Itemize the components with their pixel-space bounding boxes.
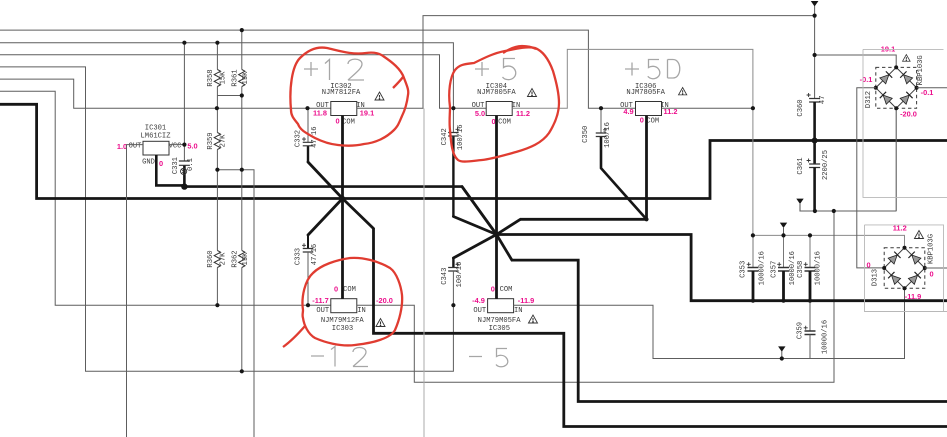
wire: arrow stub to 11.2 rail [783, 227, 785, 235]
capacitor C360 47 [797, 93, 827, 117]
label -12 [311, 355, 324, 357]
svg-text:GND: GND [142, 159, 155, 167]
svg-text:C360: C360 [797, 99, 805, 116]
capacitor C342 100/16 [441, 108, 465, 150]
svg-text:11.8: 11.8 [313, 109, 327, 118]
wire: resistor top jog to long vertical x=254 [217, 170, 254, 437]
wire: +5D feed rail from left edge to IC306 OUT [0, 30, 636, 108]
svg-text:15K: 15K [219, 71, 227, 85]
wire: IC304 IN rail up over to 11.2 gray route, down to cap rail [512, 49, 904, 247]
wire: C361 bottom thick to -20 line [813, 168, 816, 212]
svg-text:-20.0: -20.0 [900, 109, 917, 118]
wire: IC302 COM thick down to X1 [341, 116, 344, 199]
svg-text:C342: C342 [441, 128, 449, 145]
svg-text:COM: COM [500, 286, 513, 294]
svg-text:IC301: IC301 [145, 124, 166, 132]
svg-text:R360: R360 [207, 250, 215, 267]
capacitor C350 100/16 [582, 108, 612, 148]
warning triangle IC306 [679, 88, 687, 95]
svg-text:COM: COM [342, 118, 355, 126]
svg-text:IN: IN [514, 307, 523, 315]
wire: C332 lower stub to X1 diagonal [307, 146, 309, 162]
wire: C360 bottom thick to GND jog node [813, 102, 816, 164]
svg-text:15K: 15K [242, 71, 250, 85]
svg-text:-20.0: -20.0 [376, 296, 393, 305]
svg-text:100/16: 100/16 [604, 122, 612, 148]
svg-text:OUT: OUT [473, 307, 486, 315]
svg-text:-11.9: -11.9 [905, 292, 921, 301]
svg-text:IN: IN [357, 307, 366, 315]
svg-text:47/16: 47/16 [311, 244, 319, 265]
wire: C333 stub below X1 diagonal [307, 235, 309, 249]
resistor R360 27K [216, 170, 218, 306]
wire: X2 to IC306 COM node (GND) [520, 218, 646, 221]
off-page arrow on 11.2 rail [780, 223, 787, 228]
wire: IC303 IN thin route right-down-right to -20 line [357, 211, 834, 382]
svg-text:LM61CIZ: LM61CIZ [141, 133, 172, 141]
svg-text:0: 0 [334, 284, 338, 293]
label +5 [475, 62, 489, 76]
svg-text:-0.1: -0.1 [921, 88, 934, 97]
annotation red stroke inside +12 circle [393, 77, 403, 88]
svg-text:0: 0 [640, 116, 644, 125]
svg-text:NJM79M05FA: NJM79M05FA [478, 317, 522, 325]
annotation red circle around +5 [449, 47, 559, 161]
wire: D312 AC right to edge [917, 87, 947, 89]
label -5 [469, 356, 482, 358]
svg-text:OUT: OUT [316, 307, 329, 315]
off-page arrow on -20 line [796, 199, 803, 204]
off-page arrow on -11.9 line [778, 346, 785, 351]
wire: IC306 COM thick down to GND junction [645, 116, 648, 220]
resistor R359 27K [216, 108, 218, 170]
svg-text:C353: C353 [740, 261, 748, 278]
wire: +5 rail to IC304 OUT [0, 55, 486, 108]
svg-text:C343: C343 [441, 268, 449, 285]
capacitor C358 10000/16 [797, 235, 823, 300]
resistor R361 15K [241, 30, 243, 170]
svg-text:0: 0 [335, 117, 339, 126]
op-amp IC306 NJM7805FA regulator [626, 83, 665, 115]
warning triangle D313 [915, 231, 924, 239]
wire: D313 AC right to edge [925, 267, 947, 269]
svg-text:C350: C350 [582, 126, 590, 143]
wire: -5 sense line from left edge to IC305 OUT node [0, 67, 453, 371]
wire: IC306 IN rail to 11.2 vertical [662, 107, 753, 109]
svg-text:C358: C358 [797, 261, 805, 278]
svg-text:COM: COM [498, 118, 511, 126]
svg-text:19.1: 19.1 [360, 109, 374, 118]
resistor R358 15K [217, 43, 241, 109]
warning triangle D312 [903, 55, 911, 62]
capacitor C343 100/16 [441, 262, 464, 305]
op-amp IC302 NJM7812FA regulator [322, 83, 361, 115]
warning triangle IC302 [375, 92, 384, 100]
wire: -12 OUT line from left edge to IC303 [0, 91, 331, 305]
svg-text:15K: 15K [242, 252, 250, 266]
svg-text:R358: R358 [207, 69, 215, 86]
wire: IC304 COM thick down to X2 [495, 116, 498, 235]
wire: GND thick bus from left edge via corner to right jog [0, 104, 947, 198]
svg-text:NJM7805FA: NJM7805FA [477, 89, 516, 97]
svg-text:-0.1: -0.1 [860, 75, 873, 84]
svg-text:11.2: 11.2 [516, 109, 530, 118]
svg-text:0: 0 [929, 270, 933, 279]
svg-text:D313: D313 [872, 269, 880, 286]
svg-text:-11.9: -11.9 [518, 296, 534, 305]
svg-text:-11.7: -11.7 [312, 296, 328, 305]
op-amp IC303 NJM79M12FA regulator [321, 299, 365, 333]
op-amp IC305 NJM79M05FA regulator [478, 299, 522, 333]
capacitor C331 0.1 [172, 157, 195, 174]
svg-text:C357: C357 [770, 261, 778, 278]
svg-text:5.0: 5.0 [475, 109, 485, 118]
svg-text:COM: COM [343, 286, 356, 294]
capacitor C359 10000/16 [797, 301, 830, 359]
svg-text:C361: C361 [797, 157, 805, 174]
svg-text:0: 0 [491, 284, 495, 293]
wire: IC302 IN rail up and over to 19.1 node [357, 16, 815, 109]
svg-text:5.0: 5.0 [187, 142, 197, 151]
svg-text:0: 0 [866, 261, 870, 270]
diode bridge D312 KBP103G [865, 55, 925, 110]
svg-text:-4.9: -4.9 [472, 296, 485, 305]
op-amp IC304 NJM7805FA regulator [477, 83, 516, 115]
svg-text:C332: C332 [295, 130, 303, 147]
svg-text:4.9: 4.9 [623, 107, 633, 116]
wire: IC301 VCC to +5 tap [169, 43, 184, 161]
IC301 LM61CIZ [117, 124, 198, 168]
capacitor C332 47/16 [295, 108, 319, 148]
svg-text:100/16: 100/16 [456, 262, 464, 288]
wire: C350 lower stub diagonal to IC306 COM node [601, 137, 647, 220]
diode bridge D313 KBP103G [872, 234, 936, 290]
wire: IC303 COM thick up to X1 [341, 199, 344, 299]
wire: X2 southeast thick route to bottom right [512, 260, 947, 401]
wire: -20 thick route from X1 down right to bottom edge [374, 229, 947, 427]
wire: X2 east to lower GND bus with caps [497, 235, 947, 301]
svg-text:10000/16: 10000/16 [821, 320, 829, 354]
annotation red flourish on +5 circle top [503, 46, 536, 53]
svg-text:R361: R361 [231, 69, 239, 86]
node X2 GND star junction [453, 187, 520, 261]
svg-text:R359: R359 [207, 132, 215, 149]
wire: GND thick line from C331 node to X2 diagonal [184, 187, 496, 235]
svg-text:COM: COM [646, 117, 659, 125]
svg-text:10000/16: 10000/16 [759, 251, 767, 285]
capacitor C353 10000/16 [740, 235, 767, 300]
svg-text:VCC: VCC [169, 143, 182, 151]
capacitor C357 10000/16 [770, 235, 797, 300]
svg-text:1.0: 1.0 [117, 142, 127, 151]
svg-text:D312: D312 [865, 91, 873, 108]
annotation red tail bottom-left of IC303 circle [283, 326, 305, 347]
svg-text:KBP103G: KBP103G [917, 55, 925, 85]
node X1 GND star junction [308, 162, 374, 235]
wire: 19.1 vertical with branch to D312 [815, 6, 897, 99]
svg-text:NJM7812FA: NJM7812FA [322, 89, 361, 97]
svg-text:47: 47 [819, 96, 827, 105]
svg-text:27K: 27K [219, 134, 227, 148]
wire: IC305 COM thick up to X2 [495, 235, 498, 299]
svg-text:KBP103G: KBP103G [928, 234, 936, 264]
svg-text:2200/25: 2200/25 [822, 150, 830, 180]
section box around D313 [865, 225, 947, 312]
svg-text:C359: C359 [797, 322, 805, 339]
wire: -20 line with stub [800, 108, 897, 211]
svg-text:10000/16: 10000/16 [789, 251, 797, 285]
svg-text:NJM79M12FA: NJM79M12FA [321, 317, 365, 325]
svg-text:C331: C331 [172, 157, 180, 174]
warning triangle IC305 [529, 315, 538, 323]
warning triangle IC303 [376, 319, 385, 327]
svg-text:R362: R362 [231, 250, 239, 267]
svg-text:0: 0 [159, 159, 163, 168]
wire: C342 lower stub to X2 [452, 136, 454, 217]
wire: IC301 GND thick to C331 bottom node [156, 155, 184, 187]
resistor R362 15K [241, 170, 243, 372]
svg-text:IC303: IC303 [332, 325, 353, 333]
svg-text:10000/16: 10000/16 [815, 251, 823, 285]
svg-text:0: 0 [491, 117, 495, 126]
off-page arrow top (19.1 net) [811, 1, 819, 7]
annotation red circle around +12 [290, 48, 408, 146]
wire: +5 rail (VCC/R358) from left edge down to C342 tap [0, 43, 453, 109]
wire: C343 upper stub from X2 [452, 258, 454, 268]
capacitor C333 47/16 [295, 243, 319, 305]
wire: IC305 IN route right and down to -11.9 line [514, 288, 905, 358]
svg-text:C333: C333 [295, 248, 303, 265]
wire: D312 AC left down to D313 AC left [857, 88, 884, 268]
svg-text:100/16: 100/16 [457, 124, 465, 150]
wire: arrow stub to -11.9 line [781, 351, 783, 359]
label +12 [304, 62, 318, 76]
wire: +12 OUT rail from left edge to IC302 [0, 79, 331, 108]
svg-text:OUT: OUT [129, 143, 142, 151]
svg-text:IC305: IC305 [489, 325, 510, 333]
section box around D312 [863, 49, 947, 197]
capacitor C361 2200/25 [797, 150, 830, 180]
annotation red circle around IC303 [302, 258, 402, 346]
svg-text:NJM7805FA: NJM7805FA [626, 89, 665, 97]
section divider line x=424 [423, 109, 425, 437]
label +5D [625, 63, 639, 76]
warning triangle IC304 [528, 89, 537, 97]
svg-text:27K: 27K [219, 252, 227, 266]
wire: IC301 OUT to left and down to bottom edge [127, 145, 144, 437]
svg-text:0.1: 0.1 [187, 158, 195, 171]
